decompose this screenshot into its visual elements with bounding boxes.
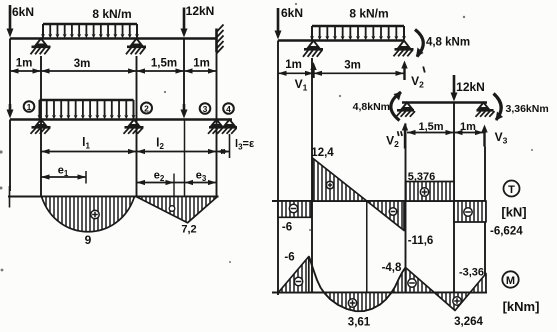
extension left end beam A xyxy=(277,41,279,296)
force 12kN on beam B xyxy=(451,75,485,102)
distributed load 8kN/m beam A xyxy=(310,7,406,41)
extension line left end xyxy=(9,39,11,105)
dimension beam A 1m 3m xyxy=(278,59,404,76)
svg-text:T: T xyxy=(508,184,515,196)
scan noise dots xyxy=(0,3,533,272)
svg-text:3,264: 3,264 xyxy=(454,316,483,328)
svg-text:3: 3 xyxy=(203,104,208,114)
svg-text:4,8kNm: 4,8kNm xyxy=(353,101,390,113)
support 1 pin beam2 xyxy=(31,120,51,134)
svg-text:l3=ε: l3=ε xyxy=(235,138,255,152)
moment 3,36kNm arc beam B right xyxy=(494,94,549,121)
svg-text:8 kN/m: 8 kN/m xyxy=(92,7,131,21)
fixed wall support xyxy=(217,25,224,54)
support V2p pin xyxy=(394,41,414,57)
svg-text:6kN: 6kN xyxy=(12,5,34,19)
svg-text:1m: 1m xyxy=(460,121,476,133)
svg-text:-6: -6 xyxy=(282,222,292,234)
dimension l1 l2 l3 xyxy=(41,135,255,154)
svg-text:[kN]: [kN] xyxy=(501,205,526,220)
long vertical V3 xyxy=(484,147,486,293)
support B pin xyxy=(126,39,146,55)
support 4 pin beam2 xyxy=(222,120,237,134)
svg-text:12kN: 12kN xyxy=(186,4,215,18)
svg-text:-6,624: -6,624 xyxy=(490,226,523,238)
M triangle positive 3,264 xyxy=(434,293,483,329)
svg-text:-3,36: -3,36 xyxy=(459,267,484,279)
dimension beam B 1,5m 1m xyxy=(407,121,484,135)
M label circle xyxy=(502,271,518,287)
svg-text:3,36kNm: 3,36kNm xyxy=(506,103,549,115)
extension line wall xyxy=(216,48,218,197)
svg-text:1m: 1m xyxy=(193,58,210,70)
unit kN xyxy=(501,205,526,220)
support V2pp pin xyxy=(396,103,415,117)
T zero line xyxy=(272,200,487,202)
support V3 pin xyxy=(476,103,495,117)
moment 4,8kNm arc beam B left xyxy=(353,92,402,121)
svg-text:[kNm]: [kNm] xyxy=(503,299,540,314)
M triangle -6 xyxy=(278,252,309,293)
svg-text:4,8 kNm: 4,8 kNm xyxy=(426,37,470,49)
unit kNm xyxy=(503,299,540,314)
node 3 circled xyxy=(200,103,211,114)
support 2 pin beam2 xyxy=(124,120,144,134)
svg-text:6kN: 6kN xyxy=(281,6,303,20)
svg-text:12,4: 12,4 xyxy=(311,147,334,159)
reaction V2p arrow xyxy=(401,61,425,90)
svg-text:1m: 1m xyxy=(285,59,302,71)
support 3 pin beam2 xyxy=(208,120,223,134)
reaction V2pp arrow xyxy=(386,123,408,150)
node 1 circled xyxy=(24,101,35,112)
force arrow on beam 2 left xyxy=(7,104,14,119)
svg-text:9: 9 xyxy=(85,233,92,247)
extension line support 4 xyxy=(229,134,231,158)
svg-text:5,376: 5,376 xyxy=(408,171,436,183)
beam 2 line xyxy=(10,118,232,121)
T triangle negative -11,6 xyxy=(367,201,433,247)
svg-text:1: 1 xyxy=(27,102,32,112)
M wedge beam B left negative xyxy=(406,268,435,293)
extension line support A xyxy=(40,56,42,197)
svg-text:3m: 3m xyxy=(74,58,91,70)
svg-text:1m: 1m xyxy=(16,58,33,70)
long vertical V1 xyxy=(311,58,313,293)
reaction V3 arrow xyxy=(481,125,507,147)
M0 parabola value 9 xyxy=(42,197,135,248)
extension line 12kN below beam2 xyxy=(184,120,186,197)
long vertical 12kN xyxy=(453,103,455,310)
T triangle positive 12,4 xyxy=(311,147,366,201)
force 12kN on beam 1 xyxy=(181,4,215,38)
T rect -6,624 xyxy=(454,201,523,238)
distributed load on beam 2 xyxy=(38,100,136,119)
svg-text:1,5m: 1,5m xyxy=(151,58,177,70)
force arrow on beam 2 at 12kN xyxy=(181,104,188,119)
construction line T zero crossing xyxy=(366,201,368,310)
svg-text:4: 4 xyxy=(226,104,231,114)
node 4 circled xyxy=(223,103,234,114)
M wedge -4,8 xyxy=(382,262,406,293)
svg-text:12kN: 12kN xyxy=(456,80,485,94)
svg-text:M: M xyxy=(506,275,515,287)
dimension e2 e3 xyxy=(137,170,217,200)
svg-text:-11,6: -11,6 xyxy=(408,235,434,247)
dimension row 1m 3m 1,5m 1m xyxy=(10,58,217,74)
M parabola curve xyxy=(309,257,406,312)
extension line support B xyxy=(136,56,138,197)
M0 triangle value 7,2 xyxy=(136,197,218,236)
T rect -6 xyxy=(278,201,312,234)
M zero line xyxy=(272,291,487,293)
long vertical V2 xyxy=(405,124,407,293)
svg-text:2: 2 xyxy=(144,104,149,114)
wire xyxy=(10,37,217,40)
node 2 circled xyxy=(141,103,152,114)
svg-text:3,61: 3,61 xyxy=(348,317,371,329)
reaction V1 arrow xyxy=(295,62,317,93)
beam B line xyxy=(402,101,487,104)
M wedge -3,36 xyxy=(459,267,486,293)
svg-text:-4,8: -4,8 xyxy=(382,262,402,274)
T rect 5,376 xyxy=(406,171,455,201)
beam A line xyxy=(278,39,404,42)
svg-text:1,5m: 1,5m xyxy=(418,121,443,133)
support A pin xyxy=(31,39,51,55)
svg-text:8 kN/m: 8 kN/m xyxy=(349,7,388,21)
force 6kN on beam A xyxy=(275,6,304,40)
extension line 12kN xyxy=(183,39,185,105)
svg-text:3m: 3m xyxy=(344,60,361,72)
svg-text:7,2: 7,2 xyxy=(181,224,196,236)
M parabola positive region 3,61 xyxy=(324,293,392,329)
moment 4,8kNm arc top xyxy=(415,30,470,58)
dimension e1 xyxy=(41,165,86,184)
svg-text:-6: -6 xyxy=(284,252,294,264)
left vertical below beam 2 xyxy=(9,120,11,192)
T label circle xyxy=(504,181,520,197)
M0 zero baseline xyxy=(8,186,219,208)
force 6kN on beam 1 xyxy=(7,5,35,38)
support V1 pin xyxy=(303,41,323,57)
distributed load 8kN/m on beam 1 xyxy=(41,7,139,38)
